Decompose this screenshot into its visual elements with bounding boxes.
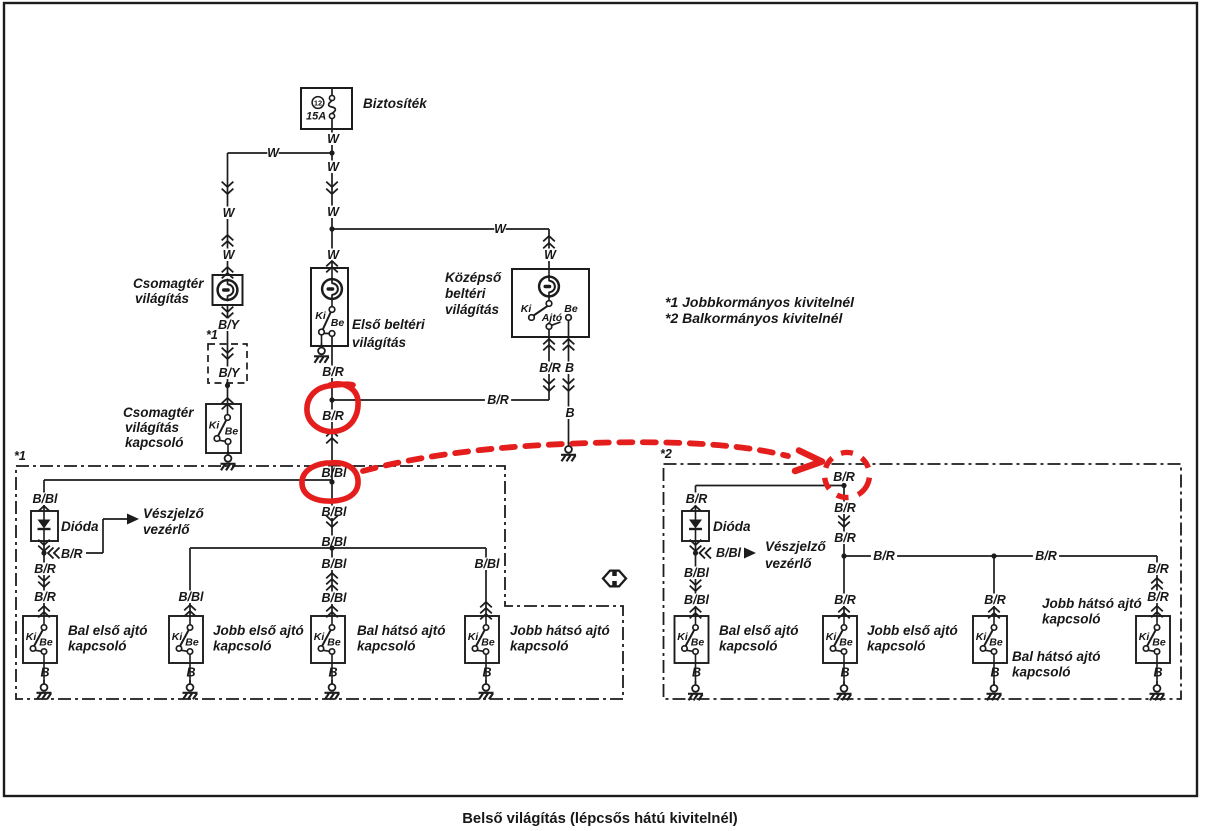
svg-text:*1: *1 (14, 449, 26, 463)
wire B/Bl to S5 (680, 567, 714, 580)
svg-text:kapcsoló: kapcsoló (125, 435, 184, 450)
node top bus *2 (841, 483, 846, 488)
connector on B/R wire (326, 431, 338, 436)
svg-text:Ki: Ki (209, 420, 221, 432)
svg-text:Ki: Ki (521, 303, 533, 315)
svg-text:W: W (544, 248, 557, 262)
svg-text:*2 Balkormányos kivitelnél: *2 Balkormányos kivitelnél (665, 310, 844, 326)
ground S8 (1156, 663, 1158, 685)
svg-text:B/Y: B/Y (218, 318, 241, 332)
svg-text:W: W (327, 205, 340, 219)
svg-text:világítás: világítás (352, 335, 407, 350)
wire B/Bl to S4 (470, 558, 504, 571)
variant box *2 outline (664, 464, 1182, 699)
switch S2 Jobb első ajtó kapcsoló (169, 616, 203, 663)
ground S6 (843, 663, 845, 685)
svg-text:B/Bl: B/Bl (716, 546, 742, 560)
svg-text:Be: Be (331, 317, 345, 329)
diode D1 (31, 511, 58, 541)
wire B/R to S8 (1145, 563, 1171, 576)
connector on right W wire (543, 236, 555, 241)
svg-text:Bal első ajtó: Bal első ajtó (719, 623, 799, 638)
svg-text:B/Bl: B/Bl (684, 593, 710, 607)
bulb symbol (331, 268, 333, 279)
svg-text:W: W (327, 160, 340, 174)
wire W branch to right lamp (332, 228, 549, 230)
svg-text:kapcsoló: kapcsoló (1012, 665, 1071, 680)
wire B/Bl to S2 (174, 591, 208, 604)
ground below trunk switch (227, 453, 229, 455)
svg-text:W: W (223, 248, 236, 262)
svg-text:Be: Be (564, 303, 578, 315)
svg-text:B: B (328, 666, 337, 680)
svg-text:Be: Be (1152, 636, 1166, 648)
fuse F1 box 15A (301, 88, 352, 129)
wire B/R bus to Középső (332, 399, 549, 401)
connector inside dashed box (222, 348, 234, 353)
wire B/R to S7 (982, 594, 1008, 607)
wire bus in *2 (844, 555, 1157, 557)
node below dashed box (225, 383, 230, 388)
svg-text:Jobb első ajtó: Jobb első ajtó (213, 623, 304, 638)
svg-text:B: B (40, 666, 49, 680)
svg-text:Vészjelző: Vészjelző (143, 506, 205, 521)
svg-text:B/R: B/R (322, 365, 344, 379)
svg-text:Ajtó: Ajtó (541, 312, 563, 324)
red circle annotation on B/R node (307, 384, 358, 432)
svg-text:kapcsoló: kapcsoló (68, 639, 127, 654)
svg-text:15A: 15A (306, 111, 326, 123)
node bus *2 (841, 553, 846, 558)
svg-text:Jobb hátsó ajtó: Jobb hátsó ajtó (510, 623, 610, 638)
svg-text:W: W (327, 248, 340, 262)
svg-text:Ki: Ki (172, 631, 184, 643)
connector on main W wire (326, 182, 338, 187)
wire B/R from Középső (548, 329, 550, 400)
ground S4 (485, 663, 487, 684)
svg-text:vezérlő: vezérlő (765, 556, 812, 571)
node junction main/left (329, 150, 334, 155)
switch Csomagtér világítás kapcsoló (206, 404, 241, 453)
wire W main vertical from fuse (331, 119, 333, 268)
wire B/R to left door switch (32, 563, 58, 576)
svg-text:B: B (186, 666, 195, 680)
svg-text:Vészjelző: Vészjelző (765, 539, 827, 554)
svg-text:Be: Be (691, 636, 705, 648)
switch inside Első box (331, 299, 333, 307)
wire bus in *1 (190, 547, 486, 549)
lamp Csomagtér világítás box (213, 275, 243, 305)
svg-text:világítás: világítás (135, 291, 190, 306)
lamp unit Középső beltéri világítás box (512, 269, 589, 337)
svg-text:vezérlő: vezérlő (143, 522, 190, 537)
red dashed circle annotation on B/R (*2) (816, 444, 877, 505)
svg-text:B/R: B/R (834, 593, 856, 607)
svg-text:B/Bl: B/Bl (322, 557, 348, 571)
wire B/Y below lamp (227, 305, 229, 404)
wire B/Bl top bus in *1 (44, 479, 332, 481)
svg-text:B: B (840, 666, 849, 680)
svg-text:B: B (692, 666, 701, 680)
connector B/R toward hazard controller (48, 548, 60, 559)
dashed connector box *1 (208, 344, 247, 383)
connector below diode D2 (695, 541, 697, 616)
ground S7 (993, 663, 995, 685)
node below diode D2 (693, 550, 698, 555)
svg-text:B/R: B/R (984, 593, 1006, 607)
svg-text:Belső világítás (lépcsős hátú: Belső világítás (lépcsős hátú kivitelnél… (462, 811, 738, 827)
connector above trunk switch (222, 398, 234, 403)
svg-text:B/Bl: B/Bl (322, 505, 348, 519)
svg-text:Bal első ajtó: Bal első ajtó (68, 623, 148, 638)
node B/R junction (329, 397, 334, 402)
svg-text:Be: Be (185, 636, 199, 648)
svg-text:B/R: B/R (61, 547, 83, 561)
svg-text:W: W (327, 132, 340, 146)
wire B/R main drop *2 (843, 486, 845, 617)
node top bus/main (317, 467, 351, 480)
ground from Első box (321, 335, 323, 346)
variant box *1 outline (16, 466, 623, 699)
svg-text:kapcsoló: kapcsoló (867, 639, 926, 654)
connector B/Bl toward hazard controller (700, 548, 712, 559)
svg-text:12: 12 (314, 98, 322, 107)
svg-text:B/R: B/R (686, 492, 708, 506)
switch S8 Jobb hátsó ajtó kapcsoló (*2) (1136, 616, 1170, 663)
red circle annotation on B/Bl label (302, 463, 358, 501)
svg-text:beltéri: beltéri (445, 286, 486, 301)
node below diode (41, 550, 46, 555)
svg-text:W: W (223, 206, 236, 220)
svg-text:B/Bl: B/Bl (33, 492, 59, 506)
connector on left W wire (222, 182, 234, 187)
switch S1 Bal első ajtó kapcsoló (23, 616, 57, 663)
ground of B wire (568, 442, 570, 446)
svg-text:B/Bl: B/Bl (179, 590, 205, 604)
svg-text:Ki: Ki (468, 631, 480, 643)
ground S5 (695, 663, 697, 685)
fuse F1 element (329, 95, 334, 100)
wire B from Középső to ground (568, 320, 570, 444)
svg-text:Ki: Ki (976, 631, 988, 643)
diode D2 (682, 511, 709, 541)
svg-text:Csomagtér: Csomagtér (133, 276, 204, 291)
svg-text:Be: Be (39, 636, 53, 648)
svg-text:B/R: B/R (833, 470, 855, 484)
switch Ki/Ajtó/Be inside (548, 297, 550, 301)
node bus to S7 (991, 553, 996, 558)
svg-text:Bal hátsó ajtó: Bal hátsó ajtó (357, 623, 446, 638)
svg-text:*2: *2 (660, 447, 672, 461)
svg-text:B/Bl: B/Bl (684, 566, 710, 580)
svg-text:B/R: B/R (1035, 549, 1057, 563)
svg-text:kapcsoló: kapcsoló (510, 639, 569, 654)
svg-text:kapcsoló: kapcsoló (213, 639, 272, 654)
svg-text:Ki: Ki (677, 631, 689, 643)
svg-text:B/R: B/R (539, 361, 561, 375)
wire B/R below Első box (331, 336, 333, 466)
svg-text:Be: Be (225, 426, 239, 438)
ground S3 (331, 663, 333, 684)
switch S6 Jobb első ajtó kapcsoló (*2) (823, 616, 857, 663)
svg-text:B/R: B/R (1147, 562, 1169, 576)
svg-text:Jobb hátsó ajtó: Jobb hátsó ajtó (1042, 596, 1142, 611)
svg-text:B/R: B/R (34, 562, 56, 576)
svg-text:világítás: világítás (445, 302, 500, 317)
svg-text:Be: Be (989, 636, 1003, 648)
svg-text:B/Bl: B/Bl (322, 591, 348, 605)
svg-text:B/R: B/R (834, 531, 856, 545)
fuse F1 circled 12 (312, 97, 324, 109)
svg-text:Biztosíték: Biztosíték (363, 96, 428, 111)
ground S2 (189, 663, 191, 684)
svg-text:Ki: Ki (314, 631, 326, 643)
wire W branch to left lamp (228, 152, 333, 154)
svg-text:B: B (990, 666, 999, 680)
svg-text:B: B (565, 406, 574, 420)
red dashed arrow annotation (363, 442, 788, 471)
svg-text:B: B (1153, 666, 1162, 680)
ground S1 (43, 663, 45, 684)
switch S4 Jobb hátsó ajtó kapcsoló (465, 616, 499, 663)
svg-text:*1: *1 (206, 328, 218, 342)
svg-text:Jobb első ajtó: Jobb első ajtó (867, 623, 958, 638)
svg-text:Ki: Ki (1139, 631, 1151, 643)
svg-text:Ki: Ki (26, 631, 38, 643)
svg-text:W: W (494, 222, 507, 236)
lamp unit Első beltéri világítás box (311, 268, 348, 346)
connector above Első box (326, 261, 338, 266)
svg-text:Be: Be (839, 636, 853, 648)
switch S7 Bal hátsó ajtó kapcsoló (*2) (973, 616, 1007, 663)
wire B/R top bus in *2 (696, 485, 845, 487)
svg-text:W: W (267, 146, 280, 160)
switch S5 Bal első ajtó kapcsoló (*2) (675, 616, 709, 663)
svg-text:kapcsoló: kapcsoló (357, 639, 416, 654)
svg-text:B: B (565, 361, 574, 375)
svg-text:Be: Be (327, 636, 341, 648)
svg-text:kapcsoló: kapcsoló (719, 639, 778, 654)
svg-text:Ki: Ki (826, 631, 838, 643)
svg-text:B/R: B/R (1147, 590, 1169, 604)
svg-text:B/Bl: B/Bl (475, 557, 501, 571)
node main bus *1 (329, 545, 334, 550)
svg-text:Középső: Középső (445, 270, 502, 285)
swap symbol between variants (603, 571, 626, 587)
svg-text:Dióda: Dióda (713, 519, 751, 534)
svg-text:B/Bl: B/Bl (322, 466, 348, 480)
svg-text:Be: Be (481, 636, 495, 648)
connector below diode (43, 541, 45, 616)
svg-text:B: B (482, 666, 491, 680)
wire to diode (28, 493, 62, 506)
svg-text:Csomagtér: Csomagtér (123, 405, 194, 420)
svg-text:B/Y: B/Y (219, 366, 242, 380)
svg-text:Első beltéri: Első beltéri (352, 317, 425, 332)
node junction main/right (329, 226, 334, 231)
svg-text:Bal hátsó ajtó: Bal hátsó ajtó (1012, 649, 1101, 664)
svg-text:B/R: B/R (873, 549, 895, 563)
svg-text:B/R: B/R (487, 393, 509, 407)
svg-text:Ki: Ki (315, 310, 327, 322)
svg-text:*1 Jobbkormányos kivitelnél: *1 Jobbkormányos kivitelnél (665, 294, 855, 310)
svg-text:Dióda: Dióda (61, 519, 99, 534)
wire B/Bl main drop (331, 482, 333, 616)
connector above Csomagtér lamp (222, 267, 234, 272)
svg-text:B/R: B/R (322, 409, 344, 423)
connector on left W wire 2 (222, 235, 234, 240)
svg-text:B/R: B/R (834, 501, 856, 515)
svg-text:B/R: B/R (34, 590, 56, 604)
svg-text:világítás: világítás (125, 420, 180, 435)
lamp bulb symbol (218, 280, 238, 300)
bulb symbol (548, 269, 550, 277)
svg-text:kapcsoló: kapcsoló (1042, 612, 1101, 627)
wire to diode D2 (683, 493, 709, 506)
switch S3 Bal hátsó ajtó kapcsoló (311, 616, 345, 663)
